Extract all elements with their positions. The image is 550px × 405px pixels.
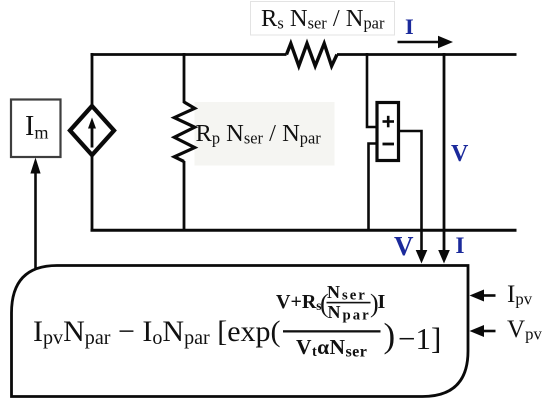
equation closing minus one bracket — [384, 318, 396, 353]
current source diamond — [70, 106, 114, 155]
equation denominator Vt alpha Nser — [296, 337, 367, 359]
current source arrow head — [88, 118, 96, 129]
wire Rp branch upper — [183, 53, 186, 103]
arrow head V into equation box — [416, 250, 428, 264]
wire voltmeter lower — [369, 144, 378, 231]
label Vpv — [507, 317, 542, 342]
equation inner numerator Nser — [327, 283, 367, 301]
equation numerator V plus Rs — [276, 292, 322, 312]
equation numerator I factor — [378, 292, 386, 312]
arrow head Vpv input — [470, 325, 485, 337]
current source arrow shaft — [91, 127, 94, 148]
arrow head into Im box — [30, 158, 40, 174]
equation inner denominator Npar — [328, 303, 371, 321]
wire top rail left — [91, 53, 287, 56]
label Im — [25, 113, 48, 141]
current I arrow head — [438, 36, 453, 48]
resistor Rs zigzag — [287, 44, 338, 67]
equation numerator open paren — [320, 291, 329, 317]
arrow shaft Ipv input — [483, 294, 496, 297]
equation minus one bracket — [398, 323, 441, 354]
label current I top — [405, 16, 414, 39]
wire bottom rail — [91, 229, 517, 232]
label Rp value — [196, 122, 321, 147]
arrow head Ipv input — [470, 290, 485, 302]
label background box Rp — [195, 102, 335, 166]
wire I sense — [443, 53, 446, 250]
equation main line left part — [33, 317, 281, 347]
arrow head I into equation box — [438, 250, 450, 264]
equation numerator close paren — [370, 291, 379, 317]
wire Rp branch lower — [183, 161, 186, 230]
voltmeter plus sign — [383, 116, 395, 128]
equation inner mini fraction bar — [327, 302, 371, 304]
current I arrow shaft — [398, 41, 440, 44]
equation block rounded box — [12, 266, 469, 397]
label voltage V right — [451, 142, 468, 166]
wire voltmeter output — [399, 131, 422, 250]
resistor Rp zigzag — [174, 102, 194, 162]
wire Im arrow shaft — [34, 173, 37, 272]
label background box Rs — [251, 2, 395, 36]
voltmeter minus sign — [383, 143, 395, 146]
wire left branch lower — [91, 153, 94, 230]
label Rs value — [261, 7, 384, 32]
arrow shaft Vpv input — [483, 330, 496, 333]
label Ipv — [507, 282, 532, 307]
Im measurement box — [11, 100, 61, 158]
equation main fraction bar — [283, 330, 381, 332]
label V at equation input — [394, 233, 414, 260]
voltmeter box — [377, 103, 399, 161]
wire top rail right — [337, 53, 517, 56]
label I at equation input — [456, 234, 465, 257]
wire left branch upper — [91, 53, 94, 108]
wire voltmeter upper — [367, 53, 378, 127]
